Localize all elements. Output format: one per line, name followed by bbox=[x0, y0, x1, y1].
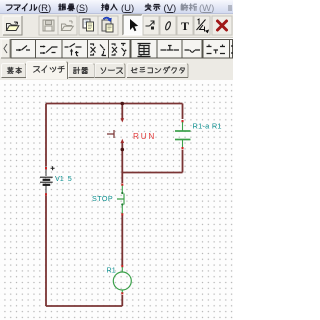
junction node top bbox=[121, 102, 125, 106]
svg-text:R1: R1 bbox=[107, 266, 116, 275]
svg-text:T: T bbox=[181, 19, 189, 33]
wire right vertical to contact R1-a bbox=[182, 104, 184, 120]
relay contact R1-a bbox=[175, 120, 191, 149]
wire RUN branch top bbox=[121, 104, 123, 120]
wire left vertical bbox=[45, 104, 47, 307]
wire coil R1 to bottom bbox=[121, 295, 123, 306]
wire STOP to coil R1 bbox=[121, 215, 123, 265]
toolbar row1 bbox=[0, 14, 233, 38]
svg-text:(U): (U) bbox=[121, 3, 134, 14]
wire top horizontal node1 bbox=[46, 103, 183, 105]
wire below contact R1-a bbox=[182, 150, 184, 173]
wire bottom horizontal bbox=[46, 305, 122, 307]
svg-text:(R): (R) bbox=[38, 3, 51, 14]
junction node below RUN bbox=[121, 148, 125, 152]
wire middle horizontal bbox=[122, 172, 182, 174]
battery V1 5 bbox=[40, 166, 55, 196]
tab strip bbox=[0, 60, 233, 80]
schematic canvas bbox=[0, 80, 233, 320]
svg-text:R1-a R1: R1-a R1 bbox=[193, 122, 222, 131]
pushbutton switch RUN (NO) bbox=[107, 118, 124, 143]
menu bar bbox=[0, 0, 233, 14]
wire RUN to STOP bbox=[121, 143, 123, 183]
svg-text:RUN: RUN bbox=[133, 132, 156, 141]
svg-text:STOP: STOP bbox=[92, 194, 113, 203]
svg-text:(W): (W) bbox=[199, 3, 214, 14]
pushbutton switch STOP (NC) bbox=[117, 184, 124, 216]
svg-text:(S): (S) bbox=[76, 3, 88, 13]
toolbar row2 bbox=[0, 39, 233, 60]
relay coil R1 bbox=[113, 265, 131, 294]
svg-text:(V): (V) bbox=[164, 3, 177, 14]
svg-text:V1 5: V1 5 bbox=[55, 174, 72, 183]
